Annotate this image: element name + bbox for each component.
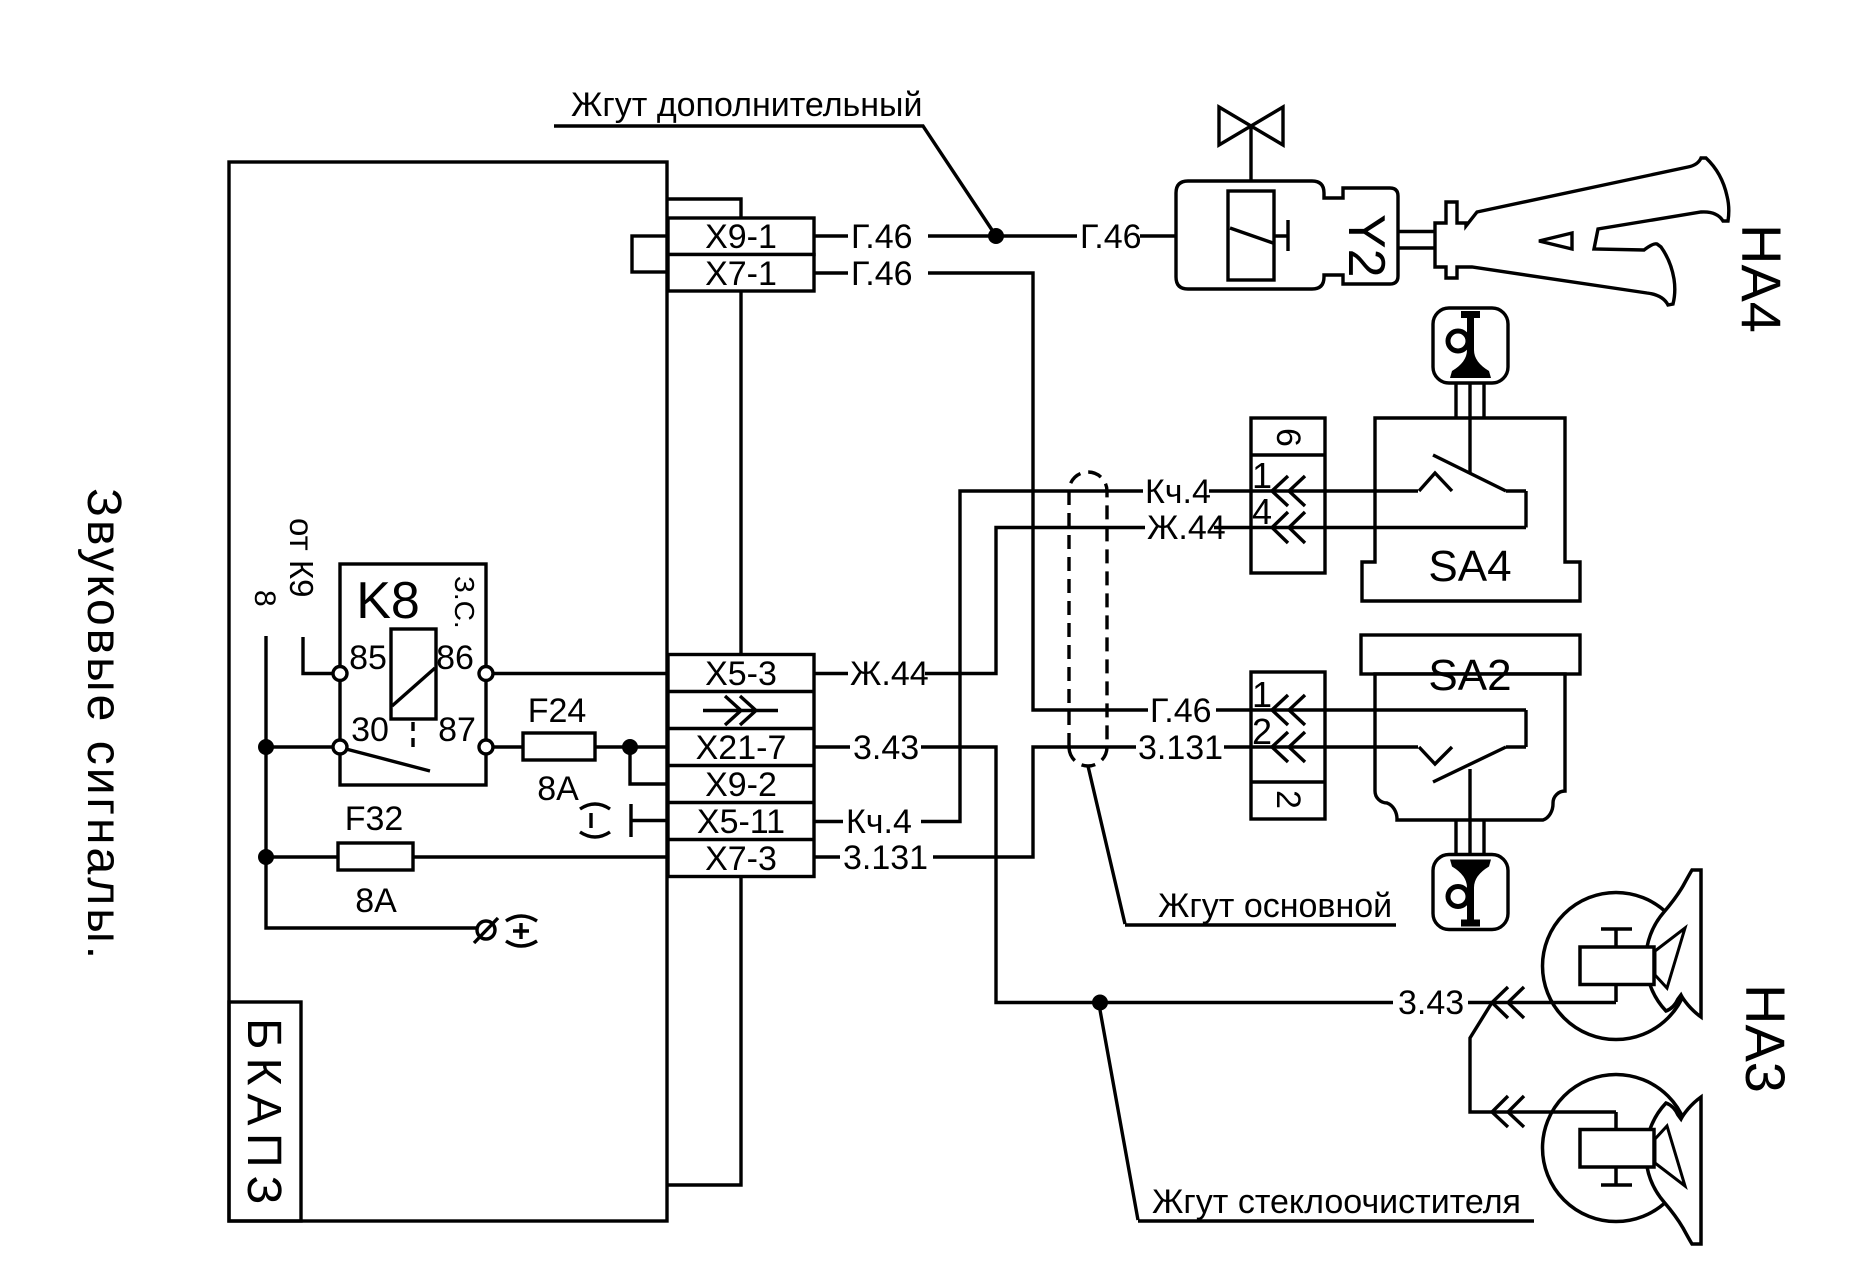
connector rail bbox=[667, 199, 741, 1185]
ground bar to X5-11 bbox=[631, 804, 668, 837]
plus symbol bbox=[506, 916, 537, 946]
horn glyph box (SA4) bbox=[1433, 308, 1508, 383]
wire 8 (left bus) bbox=[266, 636, 476, 928]
svg-text:Кч.4: Кч.4 bbox=[846, 803, 912, 841]
connector X7-1 box bbox=[668, 255, 814, 292]
svg-text:Ж.44: Ж.44 bbox=[1147, 509, 1226, 547]
wire F24 to X21-7 bbox=[595, 745, 668, 748]
svg-text:Г.46: Г.46 bbox=[851, 218, 913, 256]
SA4 bench link bbox=[1524, 491, 1527, 528]
horn glyph box (SA2) bbox=[1433, 855, 1508, 930]
svg-text:Г.46: Г.46 bbox=[1080, 218, 1142, 256]
svg-text:8A: 8A bbox=[355, 882, 397, 920]
terminal chevrons horn upper bbox=[1492, 987, 1524, 1018]
valve symbol Y2 bbox=[1219, 107, 1283, 145]
horn HA3 lower bbox=[1543, 1075, 1702, 1245]
minus symbol bbox=[580, 804, 610, 837]
svg-text:85: 85 bbox=[349, 639, 387, 677]
SA2 contact triangle bbox=[1419, 747, 1452, 764]
svg-text:HA4: HA4 bbox=[1730, 224, 1793, 333]
БКАПЗ unit box bbox=[229, 162, 667, 1221]
svg-text:Жгут основной: Жгут основной bbox=[1158, 887, 1392, 925]
SA2 bench link bbox=[1506, 710, 1526, 747]
wire X7-1 Г.46 to SA2 pin1 bbox=[814, 273, 1526, 710]
wire 30 to bus bbox=[266, 745, 333, 748]
svg-text:3.43: 3.43 bbox=[1398, 984, 1464, 1022]
switch SA2 pedestal bbox=[1361, 635, 1580, 674]
svg-text:З.С.: З.С. bbox=[449, 576, 480, 629]
fuse F32 bbox=[266, 855, 668, 858]
fuse F24 bbox=[523, 733, 595, 760]
horn HA4 bbox=[1435, 158, 1729, 305]
svg-text:HA3: HA3 bbox=[1734, 984, 1797, 1093]
svg-text:Жгут дополнительный: Жгут дополнительный bbox=[571, 86, 922, 124]
wire from K9 bbox=[303, 637, 334, 674]
SA2 actuator shaft bbox=[1468, 769, 1471, 855]
wire X5-3 Ж.44 to SA4 pin4 bbox=[814, 528, 1526, 674]
label Жгут основной bbox=[1088, 766, 1396, 925]
SA4 contact blade bbox=[1433, 455, 1506, 491]
wire 87 to F24 bbox=[493, 745, 523, 748]
svg-text:от К9: от К9 bbox=[283, 518, 320, 598]
pin 30 terminal bbox=[333, 740, 347, 754]
svg-text:86: 86 bbox=[436, 639, 474, 677]
horn HA3 upper bbox=[1543, 870, 1702, 1040]
terminal chevrons SA4 pin1 bbox=[1272, 476, 1305, 506]
SA4 actuator shaft bbox=[1468, 418, 1471, 473]
screw terminal bbox=[477, 921, 495, 939]
svg-text:F24: F24 bbox=[528, 692, 587, 730]
svg-text:X21-7: X21-7 bbox=[696, 729, 787, 767]
pin 86 terminal bbox=[479, 667, 493, 681]
svg-text:3.43: 3.43 bbox=[853, 729, 919, 767]
svg-text:6: 6 bbox=[1269, 428, 1307, 447]
pin 87 terminal bbox=[479, 740, 493, 754]
harness oval Жгут основной bbox=[1069, 472, 1107, 766]
branch to X9-2 bbox=[630, 747, 668, 784]
wire X9-1 Г.46 bbox=[814, 234, 1176, 237]
connector X9-1 box bbox=[668, 218, 814, 255]
harness continuation arrow bbox=[703, 696, 778, 725]
horn HA4 inner triangle bbox=[1539, 233, 1572, 249]
svg-text:SA2: SA2 bbox=[1428, 651, 1511, 700]
wire X5-11 Кч.4 to SA4 pin1 bbox=[814, 491, 1526, 822]
svg-text:30: 30 bbox=[351, 711, 389, 749]
lower connector column box bbox=[668, 655, 814, 877]
relay K8 box bbox=[340, 564, 486, 785]
wire 86 to X5-3 bbox=[493, 672, 668, 675]
svg-text:X5-11: X5-11 bbox=[697, 803, 785, 841]
switch SA2 body bbox=[1375, 674, 1565, 820]
stems to SA4 bbox=[1456, 383, 1484, 418]
terminal chevrons SA2 pin1 bbox=[1272, 695, 1305, 725]
pipe to HA4 bbox=[1398, 232, 1436, 249]
svg-text:Звуковые сигналы.: Звуковые сигналы. bbox=[77, 488, 130, 962]
label Жгут стеклоочистителя bbox=[1100, 1010, 1534, 1221]
svg-text:Ж.44: Ж.44 bbox=[850, 655, 929, 693]
svg-text:3.131: 3.131 bbox=[1138, 729, 1223, 767]
svg-text:2: 2 bbox=[1269, 790, 1307, 809]
svg-text:87: 87 bbox=[438, 711, 476, 749]
svg-text:X7-1: X7-1 bbox=[705, 255, 777, 293]
svg-text:БКАПЗ: БКАПЗ bbox=[237, 1018, 290, 1212]
terminal chevrons SA4 pin4 bbox=[1272, 512, 1305, 543]
terminal chevrons horn lower bbox=[1492, 1096, 1524, 1127]
svg-text:Y2: Y2 bbox=[1337, 214, 1395, 278]
svg-text:3.131: 3.131 bbox=[843, 839, 928, 877]
connector latch bbox=[632, 236, 668, 272]
wire X21-7 3.43 to horns bbox=[814, 747, 1616, 1003]
svg-text:K8: K8 bbox=[356, 572, 420, 630]
svg-text:X9-1: X9-1 bbox=[705, 218, 777, 256]
svg-text:Кч.4: Кч.4 bbox=[1145, 473, 1211, 511]
pin 85 terminal bbox=[333, 667, 347, 681]
switch SA4 body bbox=[1362, 418, 1580, 601]
branch to horn 2 bbox=[1470, 1003, 1616, 1113]
svg-text:X9-2: X9-2 bbox=[705, 766, 777, 804]
K8 contact blade bbox=[346, 749, 430, 771]
svg-text:X5-3: X5-3 bbox=[705, 655, 777, 693]
terminal chevrons SA2 pin2 bbox=[1272, 732, 1305, 762]
svg-text:F32: F32 bbox=[345, 800, 404, 838]
svg-text:SA4: SA4 bbox=[1428, 542, 1511, 591]
svg-text:8A: 8A bbox=[537, 770, 579, 808]
Y2 body bbox=[1176, 181, 1398, 289]
wire X7-3 3.131 to SA2 pin2 bbox=[814, 747, 1418, 857]
БКАПЗ label box bbox=[229, 1002, 301, 1221]
svg-text:Г.46: Г.46 bbox=[851, 255, 913, 293]
SA2 connector block bbox=[1251, 672, 1325, 819]
svg-text:8: 8 bbox=[248, 590, 281, 607]
svg-text:Жгут стеклоочистителя: Жгут стеклоочистителя bbox=[1152, 1183, 1521, 1221]
SA2 contact blade bbox=[1433, 747, 1506, 782]
svg-text:Г.46: Г.46 bbox=[1150, 692, 1212, 730]
K8 coil bbox=[391, 629, 436, 719]
SA4 contact triangle bbox=[1419, 473, 1452, 491]
svg-text:X7-3: X7-3 bbox=[705, 840, 777, 878]
stems to horn glyph (SA2) bbox=[1456, 821, 1484, 855]
SA4 connector block bbox=[1251, 418, 1325, 573]
